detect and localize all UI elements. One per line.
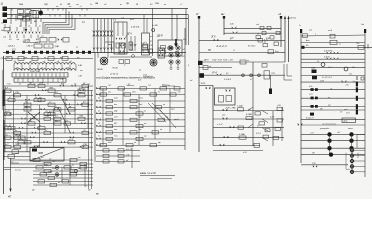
svg-text:7н: 7н bbox=[98, 136, 100, 138]
underlined caption bbox=[140, 171, 175, 179]
relay contact row D3 bbox=[96, 160, 140, 163]
caption text bbox=[96, 77, 175, 87]
left border smudge bbox=[1, 56, 5, 194]
svg-text:от: от bbox=[78, 168, 81, 170]
relay contact row A15 bbox=[4, 148, 31, 153]
diag in block B bbox=[148, 103, 176, 128]
r-rung r10 bbox=[301, 86, 365, 93]
svg-text:2.2.Л: 2.2.Л bbox=[255, 133, 261, 135]
component boxes D1 bbox=[40, 36, 69, 43]
svg-text:лв: лв bbox=[163, 4, 166, 6]
brush box T3 bbox=[158, 48, 165, 58]
svg-text:понс: понс bbox=[139, 98, 143, 100]
bus staircase bundle A bbox=[43, 9, 75, 35]
r-rung r12 bbox=[301, 104, 365, 109]
svg-text:пс: пс bbox=[72, 164, 74, 166]
svg-text:Е.ЛАБ: Е.ЛАБ bbox=[246, 113, 253, 116]
c-rung c2 bbox=[301, 139, 365, 143]
svg-text:ЛУ-2Б: ЛУ-2Б bbox=[111, 68, 118, 70]
label eb bbox=[182, 39, 186, 41]
relay contact row B8 bbox=[96, 128, 185, 134]
relay contact row D1 bbox=[96, 149, 140, 152]
row labels extra bbox=[7, 82, 90, 85]
svg-text:влн: влн bbox=[108, 91, 111, 93]
svg-text:лч: лч bbox=[157, 91, 160, 93]
bottom mid label bbox=[95, 194, 99, 196]
svg-text:кч: кч bbox=[9, 26, 11, 28]
labels 21b bbox=[129, 19, 140, 29]
relay contact row B9 bbox=[96, 136, 185, 141]
twin verticals bbox=[89, 86, 92, 189]
riser pair G bbox=[172, 9, 177, 41]
svg-text:ЛИВ: ЛИВ bbox=[37, 153, 43, 155]
rung m12 bbox=[213, 143, 260, 147]
r-rung r3 bbox=[301, 43, 372, 49]
svg-text:Д7.4Б: Д7.4Б bbox=[33, 145, 40, 148]
relay contact row B4 bbox=[96, 104, 185, 109]
svg-text:бН: бН bbox=[208, 50, 211, 52]
svg-text:2п: 2п bbox=[34, 97, 37, 99]
svg-text:1.1ДБ: 1.1ДБ bbox=[237, 106, 243, 108]
svg-text:е£ач / е:х:д!: е£ач / е:х:д! bbox=[140, 171, 156, 175]
svg-text:7п: 7п bbox=[47, 83, 49, 85]
terminal circle grid bbox=[169, 46, 186, 64]
r-rung r2 bbox=[301, 39, 365, 46]
label RGS bbox=[171, 109, 180, 121]
brush box T2 bbox=[129, 42, 134, 52]
label row m4b bbox=[212, 60, 234, 62]
svg-text:еп: еп bbox=[134, 142, 136, 144]
r-rung r5 bbox=[301, 57, 365, 60]
rail x185 bbox=[184, 28, 186, 150]
svg-text:а7.г: а7.г bbox=[144, 42, 148, 44]
rung m11 bbox=[213, 133, 284, 140]
svg-text:та упключ/отключ: та упключ/отключ bbox=[322, 123, 336, 125]
rung m2 bbox=[224, 31, 281, 41]
relay contact row C3 bbox=[11, 163, 94, 169]
wires to switch row bbox=[10, 27, 38, 38]
relay contact row A10 bbox=[4, 125, 94, 130]
svg-text:а.1 дГ: а.1 дГ bbox=[217, 123, 224, 126]
relay contact row A3 bbox=[4, 91, 94, 97]
svg-text:лт: лт bbox=[68, 6, 72, 8]
relay contact row B3 bbox=[96, 98, 185, 103]
relay contact row A2 bbox=[4, 88, 94, 93]
svg-text:б.Гв: б.Гв bbox=[349, 74, 352, 76]
svg-text:в: в bbox=[315, 34, 316, 36]
svg-text:тип Шифра направленного движен: тип Шифра направленного движения и наобо… bbox=[96, 77, 155, 80]
relay contact row B1 bbox=[96, 85, 185, 90]
relay contact row C7 bbox=[33, 180, 93, 183]
arrow line a1 bbox=[284, 16, 286, 63]
chevron drop pair bbox=[130, 36, 136, 51]
svg-text:атп: атп bbox=[114, 117, 118, 119]
svg-text:1н 2Б: 1н 2Б bbox=[152, 25, 158, 27]
upper circle links bbox=[330, 134, 352, 154]
relay contact row B10 bbox=[96, 141, 185, 147]
svg-text:Атв: Атв bbox=[305, 39, 310, 42]
arrow labels bbox=[290, 18, 296, 20]
svg-text:1-0 6-2: 1-0 6-2 bbox=[224, 79, 232, 81]
label DE-YA bbox=[156, 36, 163, 38]
svg-text:т2: т2 bbox=[190, 80, 192, 82]
svg-text:-0.-0.-2.-3: -0.-0.-2.-3 bbox=[216, 45, 227, 48]
svg-text:лв-2: лв-2 bbox=[129, 19, 135, 21]
svg-text:4П: 4П bbox=[8, 196, 11, 199]
svg-text:Х1: Х1 bbox=[225, 73, 228, 75]
relay contact row A16 bbox=[4, 152, 31, 158]
block top line bbox=[3, 49, 186, 53]
svg-text:ЬГП: ЬГП bbox=[79, 88, 83, 90]
bus L3 bbox=[7, 18, 188, 20]
relay contact row A8 bbox=[4, 116, 94, 121]
rail i3 bbox=[278, 12, 282, 47]
svg-text:1): 1) bbox=[1, 2, 4, 6]
r-rung r14 bbox=[301, 118, 365, 123]
boxes E1 bbox=[34, 41, 59, 48]
rail x95 bbox=[94, 53, 96, 163]
gap corner wires bbox=[187, 64, 292, 82]
svg-text:J-4ДГ: J-4ДГ bbox=[35, 41, 42, 44]
svg-text:кч: кч bbox=[120, 4, 122, 6]
first row boxes bbox=[4, 57, 94, 61]
r-rung r6 bbox=[301, 61, 365, 69]
dark oval component bbox=[29, 9, 43, 16]
svg-text:ту: ту bbox=[44, 2, 48, 6]
svg-text:Асдр: Асдр bbox=[343, 120, 348, 123]
label column F bbox=[149, 25, 158, 47]
r-rung r13 bbox=[301, 109, 365, 116]
relay contact row A13 bbox=[4, 139, 94, 144]
corner loop wires bbox=[105, 42, 114, 50]
divided resistor bar RB2 bbox=[14, 78, 66, 82]
bus component cluster bbox=[18, 9, 39, 20]
svg-text:лу: лу bbox=[125, 1, 130, 5]
riser x152 bbox=[152, 9, 155, 57]
svg-text:авп: авп bbox=[114, 129, 117, 131]
slant connectors bbox=[248, 107, 268, 141]
rows3 verticals bbox=[62, 160, 85, 185]
svg-text:7.4: 7.4 bbox=[121, 17, 124, 20]
line under brushes bbox=[110, 55, 152, 67]
relay contact row A1 bbox=[4, 83, 94, 88]
arrow line a2 bbox=[287, 16, 289, 63]
rail mid bbox=[212, 85, 214, 145]
commutator M2 bbox=[150, 59, 157, 66]
svg-text:ЬЛч: ЬЛч bbox=[309, 86, 312, 88]
rung m9 bbox=[213, 113, 284, 125]
svg-text:кч: кч bbox=[55, 106, 57, 108]
switch row Q1 bbox=[8, 32, 41, 33]
svg-text:ДРЧ: ДРЧ bbox=[203, 60, 209, 62]
svg-text:Х-Х Пп: Х-Х Пп bbox=[323, 57, 330, 59]
bus tick labels bbox=[9, 6, 81, 28]
r-rung r7 bbox=[301, 67, 365, 71]
bus L2 bbox=[7, 14, 188, 16]
relay contact row B5 bbox=[96, 110, 185, 115]
rung m1 bbox=[224, 24, 281, 30]
r-label row2 bbox=[319, 128, 353, 130]
svg-text:иг: иг bbox=[48, 46, 50, 48]
svg-text:ЗЛ-6: ЗЛ-6 bbox=[201, 83, 206, 85]
svg-text:лч: лч bbox=[143, 110, 146, 112]
svg-text:кч: кч bbox=[15, 130, 17, 132]
svg-text:7п: 7п bbox=[90, 4, 92, 6]
svg-text:кч: кч bbox=[19, 26, 21, 28]
svg-text:волс: волс bbox=[114, 98, 118, 100]
svg-text:+7бч: +7бч bbox=[345, 84, 349, 86]
svg-text:бк: бк bbox=[139, 117, 141, 119]
bus L1 bbox=[7, 8, 188, 10]
relay contact row C1 bbox=[11, 157, 94, 162]
r-comp blob1 bbox=[311, 68, 317, 74]
svg-text:зГ: зГ bbox=[195, 12, 199, 16]
labels under M2 bbox=[138, 70, 153, 82]
svg-text:тд: тд bbox=[178, 90, 181, 93]
c-rung c1 bbox=[301, 132, 365, 136]
svg-text:лч: лч bbox=[18, 148, 21, 150]
svg-text:2: 2 bbox=[187, 65, 189, 67]
relay contact row C2 bbox=[11, 161, 94, 166]
labels near risers bbox=[76, 21, 85, 49]
svg-text:тс: тс bbox=[139, 129, 142, 131]
riser pair H bbox=[186, 9, 189, 46]
label row m3b bbox=[216, 45, 256, 48]
svg-text:гшт: гшт bbox=[311, 68, 315, 70]
terminal block XT1 bbox=[3, 7, 8, 24]
mid-block tail bbox=[213, 151, 263, 155]
relay contact row C5 bbox=[33, 170, 93, 176]
cluster boxes extra bbox=[256, 34, 268, 47]
brush box T1 bbox=[119, 43, 126, 54]
svg-text:2нБ: 2нБ bbox=[229, 24, 234, 26]
svg-text:ЛФ: ЛФ bbox=[311, 152, 315, 155]
svg-text:ДБ-2Б: ДБ-2Б bbox=[22, 40, 31, 43]
svg-text:2т: 2т bbox=[0, 30, 4, 32]
r-label row bbox=[298, 123, 366, 125]
svg-text:ДЕ-Я: ДЕ-Я bbox=[156, 36, 163, 38]
svg-text:лт: лт bbox=[79, 70, 83, 72]
svg-text:Д.Б.4.1: Д.Б.4.1 bbox=[7, 45, 15, 48]
relay box M1 bbox=[215, 88, 237, 110]
svg-text:нс: нс bbox=[6, 125, 8, 127]
resistor chain R1 bbox=[14, 61, 76, 71]
svg-text:впс: впс bbox=[114, 104, 117, 106]
relay contact row A12 bbox=[4, 135, 94, 140]
relay contact row A6 bbox=[4, 106, 94, 111]
svg-text:Л.к Х1 Х-Х Л: Л.к Х1 Х-Х Л bbox=[321, 77, 333, 79]
disconnector bundle QS1 bbox=[93, 19, 113, 54]
svg-text:кГпб: кГпб bbox=[346, 113, 350, 115]
box1 top labels bbox=[112, 17, 124, 22]
rung m5 bbox=[198, 60, 285, 68]
rung m6 bbox=[199, 71, 285, 79]
bottom arrow bbox=[8, 158, 12, 199]
verticals in block B bbox=[103, 89, 170, 146]
svg-text:включ: включ bbox=[348, 128, 353, 130]
svg-text:хз: хз bbox=[43, 57, 46, 59]
contact circles CC bbox=[55, 166, 77, 177]
rail m253 bbox=[252, 62, 254, 146]
svg-text:Jн: Jн bbox=[299, 25, 301, 27]
bus tap wires left bbox=[11, 9, 41, 28]
svg-text:ЬГП: ЬГП bbox=[49, 111, 53, 113]
svg-text:лв: лв bbox=[94, 1, 99, 5]
labels under switch row bbox=[9, 38, 40, 41]
brush box B1 bbox=[114, 22, 127, 54]
svg-text:утопробег: утопробег bbox=[319, 128, 329, 130]
svg-text:тд: тд bbox=[55, 119, 58, 122]
ground symbols bbox=[170, 65, 180, 70]
left margin marks bbox=[0, 22, 10, 39]
relay box with slash bbox=[30, 145, 64, 162]
labels m6b bbox=[224, 79, 253, 81]
svg-text:-7ДБ: -7ДБ bbox=[54, 46, 59, 48]
relay contact row A5 bbox=[4, 101, 94, 107]
svg-text:7пбГ 7пвГ 7пбГ +7бГ: 7пбГ 7пвГ 7пбГ +7бГ bbox=[212, 60, 234, 62]
labels a2b2 bbox=[96, 68, 119, 76]
svg-text:7.8Б.Л: 7.8Б.Л bbox=[26, 46, 33, 48]
svg-text:иЗ: иЗ bbox=[28, 26, 30, 28]
top row labels bbox=[7, 57, 80, 59]
relay contact row D2 bbox=[96, 154, 140, 157]
svg-text:г: г bbox=[133, 50, 134, 52]
rung m8 bbox=[213, 105, 284, 115]
rung m7 bbox=[199, 83, 213, 89]
label D8-2B bbox=[22, 40, 37, 43]
bottom labels bbox=[32, 186, 91, 192]
r-rung r4 bbox=[301, 51, 365, 54]
relay contact row A9 bbox=[4, 119, 94, 125]
c bracket bbox=[346, 153, 358, 170]
r-rung r11 bbox=[301, 94, 365, 101]
divided resistor bar RB1 bbox=[12, 71, 68, 77]
right rail RR bbox=[361, 24, 366, 177]
svg-text:7п: 7п bbox=[79, 6, 81, 8]
svg-text:нч: нч bbox=[247, 60, 249, 62]
svg-text:вф: вф bbox=[158, 141, 161, 144]
commutator M1 bbox=[98, 53, 108, 65]
bus top labelrow bbox=[60, 4, 183, 6]
relay contact row A14 bbox=[4, 144, 94, 149]
relay contact row B6 bbox=[96, 117, 185, 122]
component K0 arrow bbox=[23, 17, 38, 33]
svg-text:Ен (у) нЛ: Ен (у) нЛ bbox=[306, 118, 314, 120]
svg-text:СЛ2: СЛ2 bbox=[312, 163, 315, 165]
svg-text:2.4: 2.4 bbox=[112, 19, 116, 22]
diag in block A bbox=[28, 97, 70, 132]
svg-text:тд: тд bbox=[79, 91, 82, 94]
block top labels bbox=[7, 45, 50, 48]
vertical x132 bbox=[131, 148, 133, 168]
svg-text:2.4Б: 2.4Б bbox=[77, 64, 83, 67]
svg-text:ЗГ.8: ЗГ.8 bbox=[211, 37, 216, 39]
relay contact row C6 bbox=[33, 175, 93, 180]
relay contact row B2 bbox=[96, 90, 185, 96]
relay contact row A4 bbox=[4, 97, 94, 102]
svg-text:жг: жг bbox=[162, 104, 165, 106]
verticals in block A bbox=[5, 86, 88, 152]
r-rung r8 bbox=[301, 74, 365, 84]
svg-text:2.2Л: 2.2Л bbox=[269, 117, 275, 119]
rung m10 bbox=[213, 123, 284, 132]
relay contact row A11 bbox=[4, 129, 94, 135]
svg-text:ив: ив bbox=[139, 70, 141, 72]
bus labels bbox=[19, 1, 159, 6]
svg-text:ую: ую bbox=[95, 194, 99, 196]
relay contact row A7 bbox=[4, 111, 94, 116]
corner mark bbox=[1, 2, 4, 6]
relay contact row C4 bbox=[33, 168, 93, 173]
rail m282 bbox=[281, 107, 283, 141]
resistor taps bbox=[22, 65, 70, 71]
svg-text:Д7.4: Д7.4 bbox=[211, 71, 217, 74]
svg-text:1п: 1п bbox=[168, 85, 170, 87]
bus ticks bbox=[12, 9, 87, 17]
svg-text:1.ЛАБ: 1.ЛАБ bbox=[239, 133, 246, 136]
svg-text:ЛВ-2Б: ЛВ-2Б bbox=[96, 69, 103, 71]
svg-text:+7нБ +7ББ: +7нБ +7ББ bbox=[225, 108, 237, 110]
rung m3 bbox=[199, 37, 285, 46]
svg-text:а2 б2 в2: а2 б2 в2 bbox=[110, 74, 119, 76]
brush box B2 bbox=[142, 15, 150, 56]
crossed circle column bbox=[350, 148, 365, 174]
svg-text:пВ Лпр: пВ Лпр bbox=[290, 18, 296, 20]
rail m273 bbox=[272, 111, 274, 146]
rung m4 bbox=[199, 50, 285, 54]
resistor chain R2 bbox=[14, 64, 83, 78]
r right links bbox=[357, 134, 365, 148]
svg-text:вН: вН bbox=[221, 12, 224, 16]
machine box B3 bbox=[158, 39, 182, 56]
c-rung c4 bbox=[301, 152, 365, 157]
r-rung r9 bbox=[301, 80, 365, 86]
boxes H1 bbox=[141, 43, 153, 53]
relay contact row B7 bbox=[96, 123, 185, 128]
svg-text:иЗ: иЗ bbox=[278, 12, 281, 16]
svg-text:ЬГП: ЬГП bbox=[19, 139, 23, 141]
svg-text:лч гчд: лч гчд bbox=[14, 169, 22, 172]
svg-text:Х-!: Х-! bbox=[81, 21, 85, 24]
svg-text:Х-Х ПГРЧ: Х-Х ПГРЧ bbox=[323, 51, 333, 53]
svg-text:лт: лт bbox=[23, 57, 27, 59]
svg-text:г: г bbox=[125, 44, 126, 46]
svg-text:РГС: РГС bbox=[171, 109, 175, 111]
svg-text:Мн: Мн bbox=[306, 45, 308, 47]
svg-text:ив: ив bbox=[328, 97, 330, 99]
left rows tail bbox=[4, 162, 22, 172]
relay contact row C8 bbox=[33, 182, 93, 187]
svg-text:лв: лв bbox=[18, 83, 21, 85]
top terminal squares bbox=[6, 51, 91, 54]
rung m5b bbox=[199, 66, 232, 70]
svg-text:Ю.Г.6.1: Ю.Г.6.1 bbox=[248, 46, 256, 48]
svg-text:нс: нс bbox=[49, 102, 51, 104]
svg-text:1.нБГ 1.5Б: 1.нБГ 1.5Б bbox=[30, 71, 40, 73]
c-rung c5 bbox=[301, 163, 348, 167]
c-rung c3 bbox=[301, 146, 365, 150]
rail 3G bbox=[195, 12, 200, 152]
svg-text:цч: цч bbox=[150, 41, 152, 43]
svg-text:лт: лт bbox=[38, 97, 42, 99]
r-rung r1 bbox=[301, 30, 365, 39]
svg-text:тв: тв bbox=[19, 2, 23, 6]
svg-text:2.1Б 4.Б: 2.1Б 4.Б bbox=[130, 26, 140, 29]
rail vN bbox=[221, 12, 225, 35]
right rail RL bbox=[299, 25, 302, 163]
label DG4 bbox=[125, 33, 132, 39]
svg-text:пдт: пдт bbox=[132, 90, 136, 93]
